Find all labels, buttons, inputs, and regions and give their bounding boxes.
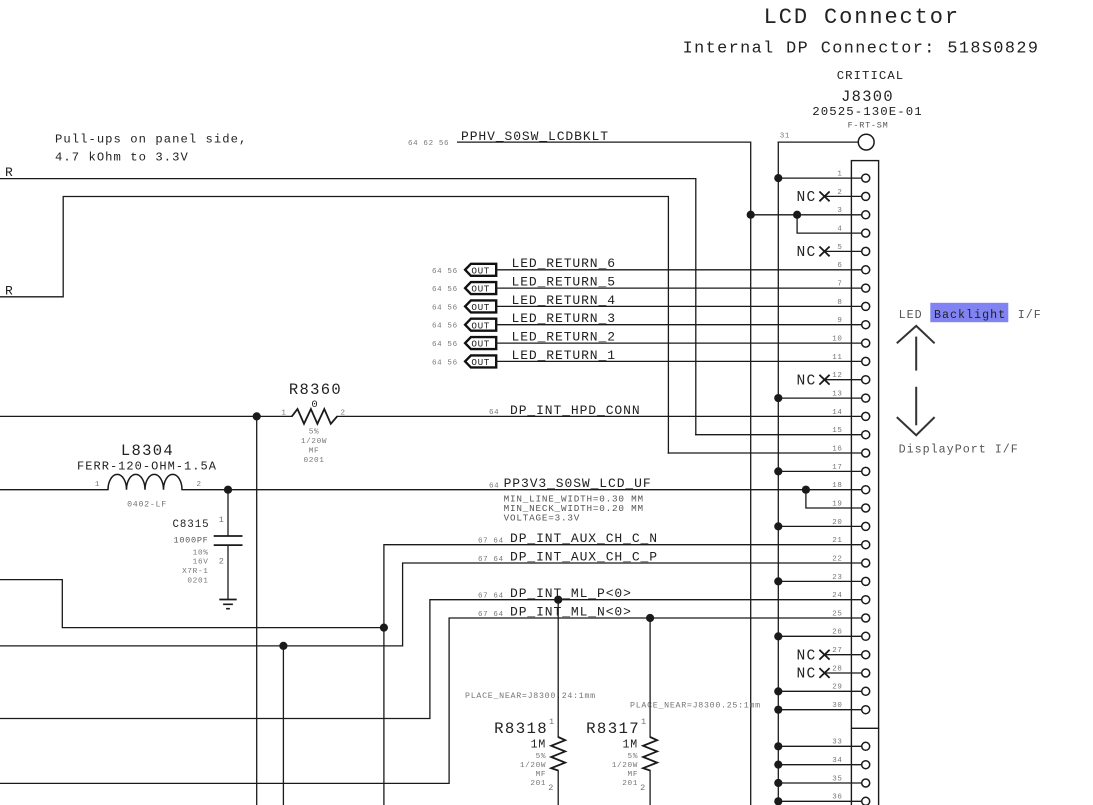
svg-text:2: 2 <box>640 783 645 793</box>
up arrow <box>897 326 935 343</box>
svg-text:C8315: C8315 <box>173 519 210 531</box>
wire pin 31 feed <box>778 141 857 143</box>
svg-text:OUT: OUT <box>471 357 490 368</box>
svg-text:6: 6 <box>837 262 842 270</box>
wire C8315 top lead <box>227 490 229 536</box>
wire to pin 33 <box>778 745 861 747</box>
pin 7 circle <box>862 284 870 292</box>
svg-text:1: 1 <box>219 515 224 525</box>
svg-text:1/20W: 1/20W <box>612 762 638 770</box>
svg-text:FERR-120-OHM-1.5A: FERR-120-OHM-1.5A <box>77 459 217 473</box>
wire to pin 16 <box>668 452 861 454</box>
svg-text:VOLTAGE=3.3V: VOLTAGE=3.3V <box>504 513 581 524</box>
svg-text:NC: NC <box>796 373 816 389</box>
svg-text:OUT: OUT <box>471 265 490 276</box>
svg-text:19: 19 <box>832 500 842 508</box>
ground symbol <box>219 600 236 609</box>
svg-text:Pull-ups on panel side,: Pull-ups on panel side, <box>55 133 247 147</box>
svg-text:NC: NC <box>796 245 816 261</box>
svg-text:1: 1 <box>837 171 842 179</box>
svg-text:PP3V3_S0SW_LCD_UF: PP3V3_S0SW_LCD_UF <box>504 476 652 491</box>
svg-text:10%: 10% <box>193 550 209 558</box>
no-connect X pin 27 <box>819 650 829 660</box>
svg-text:2: 2 <box>197 481 202 489</box>
pin 28 circle <box>862 669 870 677</box>
svg-text:1: 1 <box>549 717 554 727</box>
svg-text:20: 20 <box>832 519 842 527</box>
node bus junction pin 36 <box>774 797 782 805</box>
pin 6 circle <box>862 266 870 274</box>
svg-text:1: 1 <box>281 410 286 418</box>
no-connect X pin 5 <box>819 247 829 257</box>
resistor R8317 <box>643 737 657 771</box>
svg-text:R8360: R8360 <box>289 381 342 399</box>
svg-text:LCD Connector: LCD Connector <box>764 5 960 30</box>
svg-text:MF: MF <box>309 448 320 456</box>
wire pin 4 feed <box>797 215 862 233</box>
wire LED_RETURN_1 to pin 11 <box>496 360 862 362</box>
pin 31 circle <box>858 134 874 150</box>
wire to pin 20 <box>778 525 861 527</box>
wire DP_INT_AUX_CH_C_P route <box>0 563 862 646</box>
pin 3 circle <box>862 211 870 219</box>
svg-text:31: 31 <box>780 133 790 141</box>
svg-text:11: 11 <box>832 354 842 362</box>
wire LED_RETURN_5 to pin 7 <box>496 287 862 289</box>
svg-text:30: 30 <box>832 702 842 710</box>
svg-text:64 56: 64 56 <box>432 341 458 349</box>
svg-text:5: 5 <box>837 244 842 252</box>
svg-text:R8318: R8318 <box>494 720 548 738</box>
wire R8318 top lead <box>557 600 559 737</box>
pin 20 circle <box>862 522 870 530</box>
pin 15 circle <box>862 431 870 439</box>
node bus junction pin 23 <box>774 577 782 585</box>
svg-text:OUT: OUT <box>471 302 490 313</box>
svg-text:35: 35 <box>832 775 842 783</box>
svg-text:OUT: OUT <box>471 339 490 350</box>
off-page OUT flag LED_RETURN_6 <box>465 264 496 276</box>
down arrow <box>915 387 917 426</box>
node AUX_CH_C_P junction <box>279 642 287 650</box>
svg-text:F-RT-SM: F-RT-SM <box>848 120 889 130</box>
svg-text:LED_RETURN_1: LED_RETURN_1 <box>512 348 616 363</box>
pin 34 circle <box>862 761 870 769</box>
svg-text:20525-130E-01: 20525-130E-01 <box>812 105 922 119</box>
wire pin 3 feed <box>751 214 862 216</box>
svg-text:28: 28 <box>832 665 842 673</box>
svg-text:64 56: 64 56 <box>432 286 458 294</box>
svg-text:0201: 0201 <box>303 457 324 465</box>
svg-text:25: 25 <box>832 610 842 618</box>
svg-text:24: 24 <box>832 592 842 600</box>
svg-text:NC: NC <box>796 190 816 206</box>
svg-text:LED_RETURN_5: LED_RETURN_5 <box>512 275 616 290</box>
pin 27 circle <box>862 651 870 659</box>
pin 36 circle <box>862 797 870 805</box>
wire DP_INT_AUX_CH_C_N route <box>384 545 862 805</box>
wire to pin 13 <box>778 397 861 399</box>
svg-text:12: 12 <box>832 372 842 380</box>
wire to pin 36 <box>778 800 861 802</box>
wire LED_RETURN_4 to pin 8 <box>496 305 862 307</box>
wire PP3V3 to pin 18 <box>182 489 862 491</box>
svg-text:17: 17 <box>832 464 842 472</box>
svg-text:1: 1 <box>641 717 646 727</box>
svg-text:DP_INT_ML_P<0>: DP_INT_ML_P<0> <box>510 586 632 601</box>
svg-text:OUT: OUT <box>471 284 490 295</box>
pin 11 circle <box>862 357 870 365</box>
pin 8 circle <box>862 302 870 310</box>
pin 19 circle <box>862 504 870 512</box>
svg-text:LED_RETURN_3: LED_RETURN_3 <box>512 311 616 326</box>
wire to pin 1 <box>778 177 861 179</box>
wire DP_INT_ML_N<0> route <box>0 618 862 783</box>
svg-text:MF: MF <box>628 771 639 779</box>
svg-text:34: 34 <box>832 757 842 765</box>
svg-text:16V: 16V <box>193 559 209 567</box>
svg-text:13: 13 <box>832 391 842 399</box>
svg-text:5%: 5% <box>628 753 639 761</box>
wire HPD left segment <box>0 415 292 417</box>
svg-text:22: 22 <box>832 555 842 563</box>
no-connect X pin 2 <box>819 192 829 202</box>
svg-text:J8300: J8300 <box>841 88 894 106</box>
svg-text:15: 15 <box>832 427 842 435</box>
svg-text:4: 4 <box>837 226 842 234</box>
svg-text:33: 33 <box>832 739 842 747</box>
wire LED_RETURN_6 to pin 6 <box>496 269 862 271</box>
node bus junction pin 34 <box>774 761 782 769</box>
node bus junction pin 33 <box>774 742 782 750</box>
node bus junction pin 1 <box>774 174 782 182</box>
node bus junction pin 30 <box>774 706 782 714</box>
wire R lower net route <box>0 197 668 454</box>
svg-text:0402-LF: 0402-LF <box>127 501 167 510</box>
node HPD branch down <box>253 412 261 420</box>
svg-text:0: 0 <box>311 399 317 411</box>
svg-text:4.7 kOhm to 3.3V: 4.7 kOhm to 3.3V <box>55 151 189 165</box>
svg-text:64 56: 64 56 <box>432 323 458 331</box>
no-connect X pin 28 <box>819 668 829 678</box>
svg-text:R8317: R8317 <box>586 720 640 738</box>
svg-text:36: 36 <box>832 794 842 802</box>
off-page OUT flag LED_RETURN_2 <box>465 337 496 349</box>
svg-text:1/20W: 1/20W <box>301 438 327 446</box>
svg-text:R: R <box>5 165 13 180</box>
node bus junction pin 26 <box>774 632 782 640</box>
svg-text:MF: MF <box>536 771 547 779</box>
svg-text:Internal DP Connector: 518S082: Internal DP Connector: 518S0829 <box>683 40 1040 59</box>
node PP3V3 junction to C8315 <box>224 486 232 494</box>
svg-text:DP_INT_ML_N<0>: DP_INT_ML_N<0> <box>510 605 632 620</box>
wire PP3V3 left segment <box>0 489 108 491</box>
wire pin 19 feed <box>806 490 862 508</box>
wire to pin 29 <box>778 690 861 692</box>
pin 30 circle <box>862 706 870 714</box>
wire NC pin 12 <box>826 379 862 381</box>
svg-text:L8304: L8304 <box>121 442 174 460</box>
wire DP_INT_ML_P<0> route <box>0 600 862 719</box>
svg-text:201: 201 <box>622 780 638 788</box>
svg-text:1000PF: 1000PF <box>174 536 209 546</box>
pin 35 circle <box>862 779 870 787</box>
svg-text:64 62 56: 64 62 56 <box>408 140 449 148</box>
connector J8300 body lower section (pins 33-36) <box>851 728 878 805</box>
svg-text:LED_RETURN_2: LED_RETURN_2 <box>512 330 616 345</box>
svg-text:CRITICAL: CRITICAL <box>837 69 905 83</box>
wire AUX_CH_C_P vertical to page bottom <box>282 646 284 805</box>
node ML_P junction to R8318 <box>554 596 562 604</box>
capacitor C8315 plates <box>214 536 243 545</box>
wire NC pin 27 <box>826 654 862 656</box>
resistor R8318 <box>551 737 565 771</box>
pin 24 circle <box>862 596 870 604</box>
svg-text:5%: 5% <box>309 429 320 437</box>
svg-text:1M: 1M <box>622 739 638 752</box>
svg-text:1/20W: 1/20W <box>520 762 546 770</box>
svg-text:1: 1 <box>95 481 100 489</box>
node bus junction pin 35 <box>774 779 782 787</box>
pin 22 circle <box>862 559 870 567</box>
no-connect X pin 12 <box>819 375 829 385</box>
off-page OUT flag LED_RETURN_5 <box>465 282 496 294</box>
wire AUX_CH_C_N branch to left edge <box>0 580 384 628</box>
svg-text:Backlight: Backlight <box>934 308 1006 322</box>
wire PPHV_S0SW_LCDBKLT horizontal + vertical <box>458 142 751 805</box>
svg-text:2: 2 <box>837 189 842 197</box>
svg-text:2: 2 <box>548 783 553 793</box>
svg-text:16: 16 <box>832 445 842 453</box>
node bus junction pin 13 <box>774 394 782 402</box>
svg-text:DisplayPort I/F: DisplayPort I/F <box>899 442 1019 456</box>
svg-text:DP_INT_AUX_CH_C_P: DP_INT_AUX_CH_C_P <box>510 550 658 565</box>
svg-text:14: 14 <box>832 409 842 417</box>
pin 10 circle <box>862 339 870 347</box>
pin 2 circle <box>862 192 870 200</box>
wire NC pin 28 <box>826 672 862 674</box>
wire C8315 bottom lead <box>227 546 229 599</box>
wire R8318 bottom lead <box>557 771 559 805</box>
svg-text:LED_RETURN_4: LED_RETURN_4 <box>512 293 616 308</box>
wire to pin 15 <box>696 434 862 436</box>
node PP3V3 branch to pin 19 <box>802 486 810 494</box>
off-page OUT flag LED_RETURN_4 <box>465 300 496 312</box>
svg-text:OUT: OUT <box>471 320 490 331</box>
wire ground bus vertical <box>777 142 779 805</box>
wire to pin 30 <box>778 709 861 711</box>
pin 17 circle <box>862 467 870 475</box>
pin 21 circle <box>862 541 870 549</box>
svg-text:3: 3 <box>837 207 842 215</box>
svg-text:23: 23 <box>832 574 842 582</box>
node PPHV branch to pin 4 <box>793 211 801 219</box>
off-page OUT flag LED_RETURN_1 <box>465 355 496 367</box>
node bus junction pin 20 <box>774 522 782 530</box>
svg-text:5%: 5% <box>536 753 547 761</box>
svg-text:I/F: I/F <box>1018 308 1042 322</box>
off-page OUT flag LED_RETURN_3 <box>465 319 496 331</box>
svg-text:LED_RETURN_6: LED_RETURN_6 <box>512 256 616 271</box>
svg-text:NC: NC <box>796 667 816 683</box>
pin 16 circle <box>862 449 870 457</box>
svg-text:29: 29 <box>832 684 842 692</box>
pin 23 circle <box>862 577 870 585</box>
svg-text:8: 8 <box>837 299 842 307</box>
node PPHV junction pin3 row <box>747 211 755 219</box>
svg-text:0201: 0201 <box>187 578 208 586</box>
node bus junction pin 17 <box>774 467 782 475</box>
pin 14 circle <box>862 412 870 420</box>
resistor R8360 <box>292 409 337 424</box>
node AUX_CH_C_N junction <box>380 624 388 632</box>
svg-text:21: 21 <box>832 537 842 545</box>
wire to pin 23 <box>778 580 861 582</box>
svg-text:26: 26 <box>832 629 842 637</box>
wire R8317 top lead <box>649 618 651 737</box>
svg-text:PLACE_NEAR=J8300.24:1mm: PLACE_NEAR=J8300.24:1mm <box>465 692 596 701</box>
svg-text:64 56: 64 56 <box>432 304 458 312</box>
svg-text:10: 10 <box>832 336 842 344</box>
pin 25 circle <box>862 614 870 622</box>
pin 1 circle <box>862 174 870 182</box>
inductor L8304 coil <box>108 474 182 489</box>
pin 5 circle <box>862 247 870 255</box>
svg-text:LED: LED <box>899 308 923 322</box>
svg-text:DP_INT_HPD_CONN: DP_INT_HPD_CONN <box>510 403 641 418</box>
node bus junction pin 29 <box>774 687 782 695</box>
wire NC pin 2 <box>826 195 862 197</box>
svg-text:7: 7 <box>837 281 842 289</box>
svg-text:2: 2 <box>219 557 224 567</box>
svg-text:DP_INT_AUX_CH_C_N: DP_INT_AUX_CH_C_N <box>510 531 658 546</box>
pin 4 circle <box>862 229 870 237</box>
pin 26 circle <box>862 632 870 640</box>
svg-text:9: 9 <box>837 317 842 325</box>
wire to pin 26 <box>778 635 861 637</box>
wire NC pin 5 <box>826 250 862 252</box>
wire LED_RETURN_3 to pin 9 <box>496 324 862 326</box>
svg-text:27: 27 <box>832 647 842 655</box>
wire LED_RETURN_2 to pin 10 <box>496 342 862 344</box>
svg-text:X7R-1: X7R-1 <box>182 568 208 576</box>
pin 12 circle <box>862 376 870 384</box>
wire to pin 34 <box>778 764 861 766</box>
wire to pin 17 <box>778 470 861 472</box>
svg-text:64 56: 64 56 <box>432 268 458 276</box>
svg-text:64 56: 64 56 <box>432 359 458 367</box>
node ML_N junction to R8317 <box>646 614 654 622</box>
svg-text:18: 18 <box>832 482 842 490</box>
svg-text:1M: 1M <box>531 739 547 752</box>
pin 18 circle <box>862 486 870 494</box>
wire R8317 bottom lead <box>649 771 651 805</box>
pin 29 circle <box>862 687 870 695</box>
svg-text:NC: NC <box>796 648 816 664</box>
pin 13 circle <box>862 394 870 402</box>
wire HPD vertical to page bottom <box>256 416 258 805</box>
wire R upper net route <box>0 179 696 435</box>
wire HPD right segment to pin 14 <box>337 415 862 417</box>
connector J8300 body upper section (pins 1-30) <box>851 161 878 729</box>
pin 9 circle <box>862 321 870 329</box>
svg-text:201: 201 <box>530 780 546 788</box>
pin 33 circle <box>862 742 870 750</box>
wire to pin 35 <box>778 782 861 784</box>
